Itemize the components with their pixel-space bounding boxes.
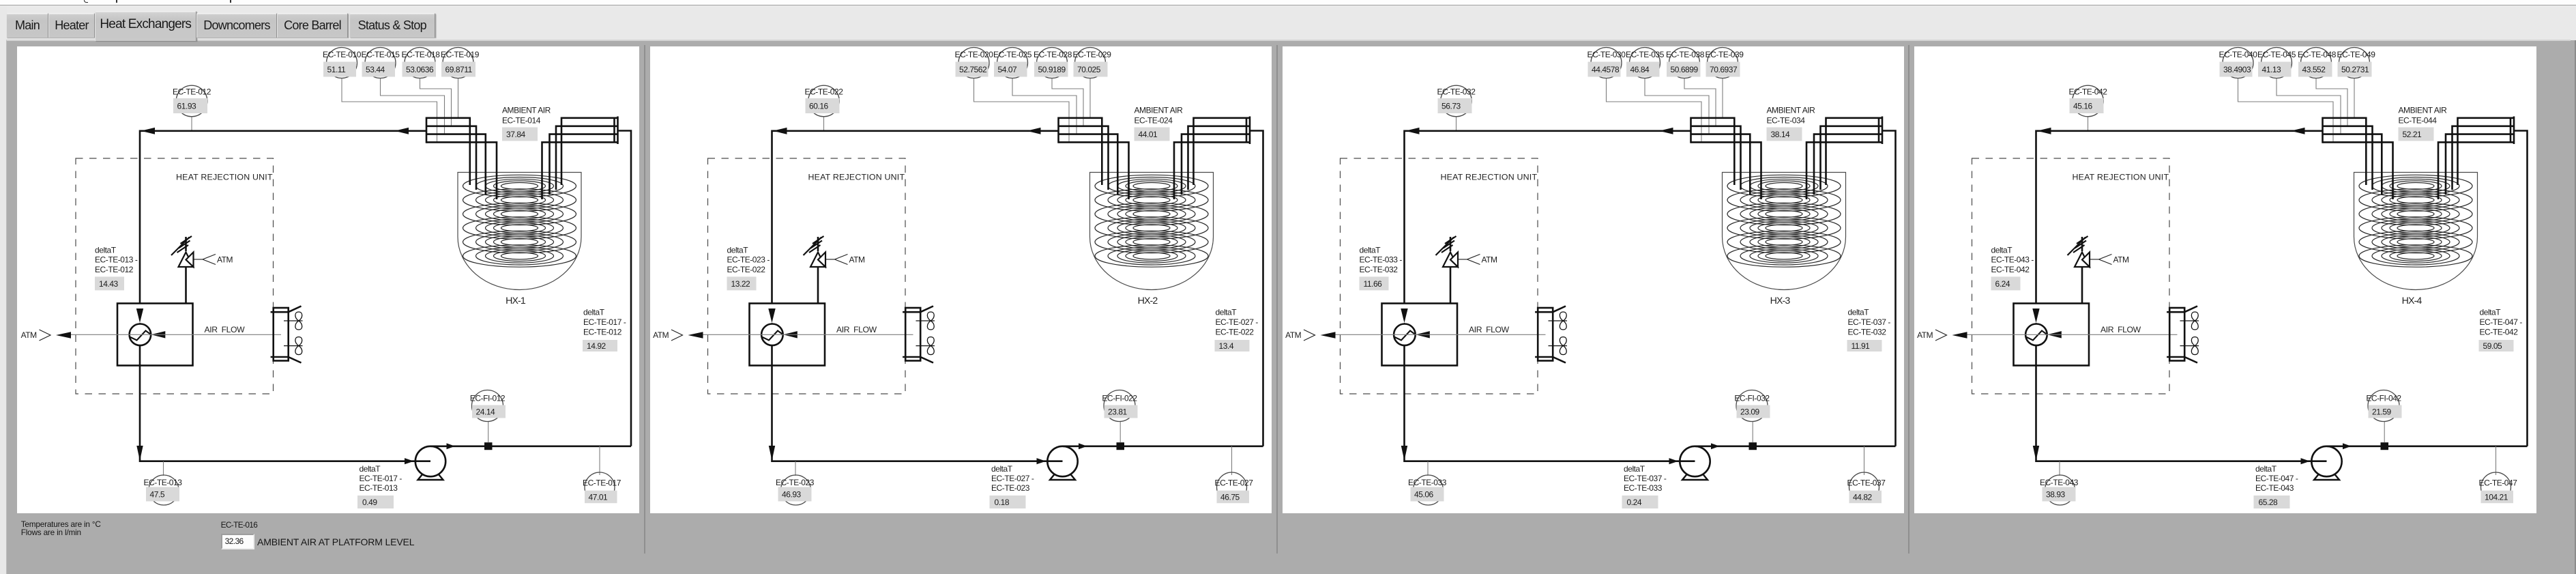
sensor EC-TE-030 (1587, 48, 1626, 78)
svg-text:41.13: 41.13 (2262, 65, 2282, 74)
flow indicator EC-FI-032 (1734, 390, 1770, 422)
svg-text:EC-TE-042: EC-TE-042 (2480, 327, 2519, 336)
svg-text:deltaT: deltaT (360, 464, 381, 474)
svg-text:11.91: 11.91 (1851, 341, 1870, 351)
flow indicator EC-FI-042 leader (2384, 422, 2385, 443)
svg-text:14.92: 14.92 (587, 341, 606, 351)
sensor EC-TE-016 (ambient at platform) (221, 520, 258, 530)
svg-text:11.66: 11.66 (1363, 279, 1382, 289)
svg-text:50.2731: 50.2731 (2341, 65, 2369, 74)
svg-text:EC-TE-029: EC-TE-029 (1072, 50, 1111, 59)
flow indicator EC-FI-022 (1102, 390, 1137, 422)
svg-text:AMBIENT AIR: AMBIENT AIR (502, 105, 551, 115)
exchanger circle with coil squiggle (2025, 324, 2047, 346)
sensor EC-TE-020 (954, 48, 993, 78)
HX-3 coil turns (1727, 175, 1841, 267)
sensor EC-TE-038 (1666, 48, 1705, 78)
svg-text:EC-TE-030: EC-TE-030 (1587, 50, 1626, 59)
window left light margin (0, 6, 7, 574)
svg-text:70.025: 70.025 (1077, 65, 1101, 74)
wire: air flow line (71, 334, 281, 335)
heat rejection unit box (air heat exchanger) (2014, 304, 2090, 366)
node ATM (air discharge) (21, 330, 71, 341)
wire: top main pipe (1404, 131, 1690, 304)
wire leader EC-TE-039 to duct row1 (1722, 78, 1723, 118)
air duct (warm side) right (1248, 117, 1250, 145)
flow indicator EC-FI-032 leader (1752, 422, 1753, 443)
svg-text:EC-TE-032: EC-TE-032 (1359, 265, 1398, 274)
svg-text:46.84: 46.84 (1630, 65, 1650, 74)
air duct (cold side) left (1057, 117, 1059, 143)
svg-text:70.6937: 70.6937 (1710, 65, 1738, 74)
panel 2: heat exchanger HX-2 loop (650, 46, 1272, 513)
svg-text:EC-TE-032: EC-TE-032 (1437, 87, 1476, 96)
sensor EC-TE-029 (1072, 48, 1111, 78)
flow indicator EC-FI-012 (470, 390, 506, 422)
svg-text:46.93: 46.93 (782, 489, 802, 499)
svg-text:14.43: 14.43 (99, 279, 119, 289)
sensor EC-TE-045 (2257, 48, 2296, 78)
svg-text:60.16: 60.16 (809, 101, 829, 111)
svg-text:EC-TE-042: EC-TE-042 (2069, 87, 2108, 96)
svg-text:deltaT: deltaT (1359, 245, 1381, 255)
sensor EC-TE-042 (2069, 85, 2108, 117)
node ATM (air discharge) (1285, 330, 1335, 341)
svg-text:38.4903: 38.4903 (2223, 65, 2251, 74)
svg-text:38.93: 38.93 (2046, 489, 2066, 499)
air duct (warm side) right (1881, 117, 1883, 145)
wire: pump outlet (430, 445, 631, 447)
svg-text:0.49: 0.49 (362, 498, 377, 507)
svg-text:EC-TE-012: EC-TE-012 (583, 327, 622, 336)
wire leader EC-TE-027 (1231, 446, 1232, 475)
svg-text:EC-TE-033: EC-TE-033 (1408, 478, 1447, 487)
wire leader EC-TE-010 to duct row4 (342, 78, 437, 143)
svg-text:EC-TE-037: EC-TE-037 (1847, 478, 1886, 487)
sensor EC-TE-037 (1847, 472, 1886, 503)
svg-text:44.4578: 44.4578 (1592, 65, 1620, 74)
fan unit F1 (271, 306, 303, 363)
svg-text:EC-TE-047 -: EC-TE-047 - (2255, 474, 2298, 483)
deltaT indicator EC-TE-037-EC-TE-033 (1622, 464, 1666, 508)
tabs (6, 13, 48, 38)
sensor EC-TE-033 (1408, 475, 1447, 505)
air duct (cold side) left (1690, 117, 1692, 143)
svg-text:ATM: ATM (1481, 255, 1497, 264)
wire leader EC-TE-023 (795, 461, 796, 476)
deltaT indicator EC-TE-013-EC-TE-012 (95, 245, 138, 290)
sensor EC-TE-015 (362, 48, 400, 78)
svg-text:45.06: 45.06 (1414, 489, 1434, 499)
svg-text:EC-TE-017 -: EC-TE-017 - (360, 474, 402, 483)
svg-text:AMBIENT AIR: AMBIENT AIR (1766, 105, 1815, 115)
sensor EC-TE-010 (323, 48, 362, 78)
svg-text:EC-TE-017: EC-TE-017 (583, 478, 621, 487)
heat rejection unit box (air heat exchanger) (117, 304, 193, 366)
svg-text:deltaT: deltaT (1847, 307, 1869, 317)
wire: top main pipe (140, 131, 426, 304)
svg-text:61.93: 61.93 (177, 101, 197, 111)
heat rejection unit dashed boundary (1972, 158, 2170, 394)
svg-text:deltaT: deltaT (727, 245, 748, 255)
svg-text:EC-TE-020: EC-TE-020 (954, 50, 993, 59)
svg-text:ATM: ATM (653, 330, 669, 340)
svg-text:HX-3: HX-3 (1770, 296, 1790, 306)
svg-text:EC-TE-037 -: EC-TE-037 - (1847, 317, 1890, 327)
deltaT indicator EC-TE-033-EC-TE-032 (1359, 245, 1402, 290)
heat exchanger HX-3 shell (1722, 173, 1845, 290)
window right dark edge (2575, 40, 2576, 574)
sensor EC-TE-047 (2479, 472, 2518, 503)
wire leader EC-TE-045 to duct row3 (2277, 78, 2341, 134)
pump P1 (1680, 446, 1710, 480)
svg-text:EC-TE-019: EC-TE-019 (441, 50, 480, 59)
wire leader EC-TE-012 to top pipe (191, 117, 192, 131)
air duct (warm side) right (617, 117, 619, 145)
air duct (cold side) left (426, 117, 428, 143)
sensor EC-TE-028 (1034, 48, 1072, 78)
svg-text:21.59: 21.59 (2372, 407, 2392, 416)
svg-text:EC-TE-022: EC-TE-022 (1215, 327, 1254, 336)
wire leader EC-TE-017 (599, 446, 600, 475)
exchanger circle with coil squiggle (761, 324, 783, 346)
heat rejection unit dashed boundary (76, 158, 274, 394)
svg-text:EC-TE-018: EC-TE-018 (402, 50, 441, 59)
svg-text:EC-TE-027 -: EC-TE-027 - (1215, 317, 1258, 327)
panel 1: heat exchanger HX-1 loop (17, 46, 639, 513)
svg-text:EC-TE-043: EC-TE-043 (2255, 483, 2294, 493)
orifice/valve (flow element) (2381, 442, 2389, 450)
svg-text:44.82: 44.82 (1853, 492, 1873, 502)
panel separator (644, 45, 645, 554)
svg-text:52.21: 52.21 (2403, 130, 2423, 139)
svg-text:EC-TE-047: EC-TE-047 (2479, 478, 2518, 487)
sensor EC-TE-048 (2298, 48, 2337, 78)
svg-text:52.7562: 52.7562 (959, 65, 987, 74)
svg-text:deltaT: deltaT (2480, 307, 2502, 317)
deltaT indicator EC-TE-047-EC-TE-043 (2254, 464, 2298, 508)
sensor EC-TE-022 (804, 85, 843, 117)
wire: bottom return pipe (140, 345, 430, 461)
sensor EC-TE-049 (2337, 48, 2376, 78)
svg-text:53.0636: 53.0636 (406, 65, 434, 74)
svg-text:deltaT: deltaT (1624, 464, 1645, 474)
svg-text:EC-TE-023 -: EC-TE-023 - (727, 255, 770, 265)
sensor EC-TE-039 (1705, 48, 1744, 78)
svg-text:EC-TE-033 -: EC-TE-033 - (1359, 255, 1402, 265)
wire leader EC-TE-019 to duct row1 (458, 78, 459, 118)
svg-text:EC-FI-012: EC-FI-012 (470, 393, 506, 403)
sensor EC-TE-012 (173, 85, 211, 117)
svg-text:EC-FI-042: EC-FI-042 (2366, 393, 2401, 403)
sensor EC-TE-025 (993, 48, 1032, 78)
wire leader EC-TE-025 to duct row3 (1012, 78, 1077, 134)
orifice/valve (flow element) (1748, 442, 1757, 450)
heat rejection unit dashed boundary (1340, 158, 1538, 394)
svg-text:EC-TE-033: EC-TE-033 (1624, 483, 1663, 493)
svg-text:37.84: 37.84 (506, 130, 526, 139)
deltaT indicator EC-TE-023-EC-TE-022 (727, 245, 770, 290)
relief valve V1 (to atmosphere) (171, 236, 194, 304)
sensor EC-TE-018 (402, 48, 441, 78)
wire leader EC-TE-042 to top pipe (2088, 117, 2089, 131)
wire leader EC-TE-049 to duct row1 (2354, 78, 2355, 118)
sensor EC-TE-019 (441, 48, 480, 78)
svg-text:HX-1: HX-1 (506, 296, 526, 306)
wire: pump outlet (2327, 445, 2528, 447)
svg-text:ATM: ATM (1285, 330, 1302, 340)
svg-text:ATM: ATM (2113, 255, 2130, 264)
node ATM (valve vent) (194, 255, 233, 265)
relief valve V1 (to atmosphere) (2068, 236, 2090, 304)
svg-text:46.75: 46.75 (1220, 492, 1240, 502)
panel separator (1276, 45, 1278, 554)
orifice/valve (flow element) (1116, 442, 1124, 450)
node ATM (valve vent) (1459, 255, 1497, 265)
heat exchanger HX-2 shell (1089, 173, 1213, 290)
flow indicator EC-FI-012 leader (488, 422, 489, 443)
deltaT indicator EC-TE-037-EC-TE-032 (1847, 307, 1890, 351)
wire leader EC-TE-028 to duct row2 (1052, 78, 1083, 126)
sensor EC-TE-035 (1626, 48, 1665, 78)
svg-text:deltaT: deltaT (1991, 245, 2013, 255)
pump P1 (1047, 446, 1077, 480)
deltaT indicator EC-TE-027-EC-TE-023 (989, 464, 1034, 508)
wire: top main pipe (2036, 131, 2323, 304)
wire leader EC-TE-043 (2059, 461, 2060, 476)
svg-text:EC-TE-038: EC-TE-038 (1666, 50, 1705, 59)
deltaT indicator EC-TE-047-EC-TE-042 (2479, 307, 2523, 351)
flow indicator EC-FI-022 leader (1119, 422, 1121, 443)
wire: air flow line (1335, 334, 1545, 335)
svg-text:HX-2: HX-2 (1137, 296, 1158, 306)
fan unit F1 (2167, 306, 2199, 363)
deltaT indicator EC-TE-027-EC-TE-022 (1214, 307, 1258, 351)
panel 4: heat exchanger HX-4 loop (1914, 46, 2536, 513)
air duct (cold side) left (2322, 117, 2324, 143)
svg-text:AIR FLOW: AIR FLOW (836, 325, 877, 334)
footer notes (21, 519, 101, 529)
wire leader EC-TE-020 to duct row4 (974, 78, 1069, 143)
wire leader EC-TE-040 to duct row4 (2238, 78, 2334, 143)
wire leader EC-TE-035 to duct row3 (1645, 78, 1709, 134)
svg-text:EC-TE-043: EC-TE-043 (2040, 478, 2079, 487)
svg-text:EC-TE-028: EC-TE-028 (1034, 50, 1072, 59)
svg-text:EC-TE-012: EC-TE-012 (95, 265, 134, 274)
svg-text:EC-TE-013: EC-TE-013 (360, 483, 398, 493)
svg-text:EC-FI-022: EC-FI-022 (1102, 393, 1137, 403)
svg-text:EC-TE-013: EC-TE-013 (144, 478, 183, 487)
wire leader EC-TE-038 to duct row2 (1684, 78, 1716, 126)
svg-text:50.6899: 50.6899 (1670, 65, 1698, 74)
panel separator (1908, 45, 1909, 554)
top white strip with cut-off text descenders (0, 0, 2576, 5)
heat rejection unit box (air heat exchanger) (1381, 304, 1457, 366)
svg-text:69.8711: 69.8711 (445, 65, 473, 74)
wire leader EC-TE-037 (1863, 446, 1864, 475)
node ATM (valve vent) (2090, 255, 2129, 265)
sensor EC-TE-043 (2040, 475, 2079, 505)
HX-1 coil turns (463, 175, 576, 267)
relief valve V1 (to atmosphere) (803, 236, 825, 304)
svg-text:43.552: 43.552 (2302, 65, 2326, 74)
pump P1 (2311, 446, 2341, 480)
svg-text:ATM: ATM (217, 255, 233, 264)
sensor EC-TE-040 (2219, 48, 2258, 78)
wire: bottom return pipe (1404, 345, 1694, 461)
svg-text:HEAT REJECTION UNIT: HEAT REJECTION UNIT (1440, 172, 1537, 182)
svg-text:44.01: 44.01 (1138, 130, 1158, 139)
exchanger circle with coil squiggle (1394, 324, 1416, 346)
node ATM (valve vent) (826, 255, 865, 265)
svg-text:EC-TE-032: EC-TE-032 (1847, 327, 1886, 336)
wire leader EC-TE-030 to duct row4 (1606, 78, 1701, 143)
wire: right riser pipe (1250, 131, 1263, 446)
svg-text:EC-TE-024: EC-TE-024 (1134, 116, 1173, 126)
sensor EC-TE-032 (1437, 85, 1476, 117)
svg-text:EC-TE-044: EC-TE-044 (2399, 116, 2438, 126)
svg-text:0.24: 0.24 (1626, 498, 1641, 507)
svg-text:AMBIENT AIR: AMBIENT AIR (1134, 105, 1183, 115)
svg-text:AIR FLOW: AIR FLOW (205, 325, 246, 334)
svg-text:38.14: 38.14 (1770, 130, 1790, 139)
wire leader EC-TE-013 (163, 461, 164, 476)
wire leader EC-TE-033 (1427, 461, 1429, 476)
svg-text:0.18: 0.18 (994, 498, 1009, 507)
flow indicator EC-FI-042 (2366, 390, 2401, 422)
orifice/valve (flow element) (484, 442, 493, 450)
svg-text:deltaT: deltaT (583, 307, 605, 317)
svg-text:EC-TE-025: EC-TE-025 (993, 50, 1032, 59)
heat exchanger HX-4 shell (2354, 173, 2478, 290)
wire: top main pipe (772, 131, 1058, 304)
svg-text:EC-TE-023: EC-TE-023 (991, 483, 1030, 493)
svg-text:23.09: 23.09 (1740, 407, 1760, 416)
svg-text:EC-TE-047 -: EC-TE-047 - (2480, 317, 2523, 327)
svg-text:deltaT: deltaT (95, 245, 117, 255)
svg-text:AMBIENT AIR: AMBIENT AIR (2399, 105, 2448, 115)
svg-text:deltaT: deltaT (991, 464, 1013, 474)
svg-text:EC-TE-043 -: EC-TE-043 - (1991, 255, 2034, 265)
relief valve V1 (to atmosphere) (1435, 236, 1458, 304)
svg-text:EC-TE-017 -: EC-TE-017 - (583, 317, 626, 327)
wire leader EC-TE-032 to top pipe (1455, 117, 1457, 131)
svg-text:deltaT: deltaT (2255, 464, 2277, 474)
wire: bottom return pipe (2036, 345, 2326, 461)
svg-text:EC-TE-013 -: EC-TE-013 - (95, 255, 138, 265)
deltaT indicator EC-TE-017-EC-TE-012 (583, 307, 626, 351)
svg-text:45.16: 45.16 (2073, 101, 2093, 111)
fan unit F1 (1535, 306, 1567, 363)
sensor EC-TE-023 (776, 475, 815, 505)
HX-2 coil turns (1095, 175, 1208, 267)
HX-4 coil turns (2359, 175, 2472, 267)
svg-text:AIR FLOW: AIR FLOW (2101, 325, 2141, 334)
svg-text:EC-TE-027: EC-TE-027 (1214, 478, 1253, 487)
svg-text:54.07: 54.07 (997, 65, 1017, 74)
svg-text:EC-FI-032: EC-FI-032 (1734, 393, 1770, 403)
svg-text:23.81: 23.81 (1108, 407, 1128, 416)
wire: air flow line (703, 334, 913, 335)
wire: right riser pipe (618, 131, 632, 446)
air duct (warm side) right (2513, 117, 2515, 145)
node ATM (air discharge) (653, 330, 703, 341)
svg-text:EC-TE-039: EC-TE-039 (1705, 50, 1744, 59)
wire leader EC-TE-048 to duct row2 (2316, 78, 2347, 126)
svg-text:deltaT: deltaT (1215, 307, 1237, 317)
svg-text:13.4: 13.4 (1218, 341, 1233, 351)
svg-text:EC-TE-014: EC-TE-014 (502, 116, 541, 126)
svg-text:EC-TE-012: EC-TE-012 (173, 87, 211, 96)
svg-text:47.5: 47.5 (150, 489, 165, 499)
wire leader EC-TE-047 (2495, 446, 2497, 475)
svg-text:ATM: ATM (849, 255, 865, 264)
svg-text:EC-TE-042: EC-TE-042 (1991, 265, 2030, 274)
svg-text:104.21: 104.21 (2485, 492, 2508, 502)
svg-text:EC-TE-049: EC-TE-049 (2337, 50, 2376, 59)
sensor EC-TE-027 (1214, 472, 1253, 503)
svg-text:13.22: 13.22 (731, 279, 750, 289)
svg-text:EC-TE-023: EC-TE-023 (776, 478, 815, 487)
wire: air flow line (1967, 334, 2178, 335)
svg-text:EC-TE-022: EC-TE-022 (727, 265, 765, 274)
svg-text:50.9189: 50.9189 (1038, 65, 1066, 74)
svg-text:24.14: 24.14 (476, 407, 496, 416)
svg-text:EC-TE-034: EC-TE-034 (1766, 116, 1805, 126)
svg-text:53.44: 53.44 (366, 65, 385, 74)
wire: right riser pipe (1882, 131, 1896, 446)
svg-text:HEAT REJECTION UNIT: HEAT REJECTION UNIT (2073, 172, 2169, 182)
wire leader EC-TE-029 to duct row1 (1089, 78, 1091, 118)
heat rejection unit dashed boundary (707, 158, 905, 394)
sensor EC-TE-017 (583, 472, 621, 503)
heat exchanger HX-1 shell (458, 173, 581, 290)
svg-text:56.73: 56.73 (1441, 101, 1461, 111)
svg-text:EC-TE-022: EC-TE-022 (804, 87, 843, 96)
panel 3: heat exchanger HX-3 loop (1283, 46, 1905, 513)
svg-text:AIR FLOW: AIR FLOW (1469, 325, 1510, 334)
wire leader EC-TE-022 to top pipe (823, 117, 824, 131)
svg-text:EC-TE-015: EC-TE-015 (362, 50, 400, 59)
svg-text:EC-TE-035: EC-TE-035 (1626, 50, 1665, 59)
wire: right riser pipe (2514, 131, 2528, 446)
svg-text:ATM: ATM (21, 330, 38, 340)
svg-text:51.11: 51.11 (327, 65, 347, 74)
svg-text:EC-TE-037 -: EC-TE-037 - (1624, 474, 1667, 483)
deltaT indicator EC-TE-043-EC-TE-042 (1991, 245, 2034, 290)
svg-text:EC-TE-040: EC-TE-040 (2219, 50, 2258, 59)
svg-text:59.05: 59.05 (2483, 341, 2503, 351)
wire leader EC-TE-015 to duct row3 (381, 78, 445, 134)
svg-text:HEAT REJECTION UNIT: HEAT REJECTION UNIT (808, 172, 905, 182)
wire: bottom return pipe (772, 345, 1062, 461)
heat rejection unit box (air heat exchanger) (749, 304, 825, 366)
svg-text:EC-TE-010: EC-TE-010 (323, 50, 362, 59)
node ATM (air discharge) (1917, 330, 1967, 341)
fan unit F1 (903, 306, 935, 363)
svg-text:65.28: 65.28 (2259, 498, 2279, 507)
svg-text:6.24: 6.24 (1995, 279, 2010, 289)
wire leader EC-TE-018 to duct row2 (420, 78, 452, 126)
svg-text:EC-TE-045: EC-TE-045 (2257, 50, 2296, 59)
exchanger circle with coil squiggle (130, 324, 151, 346)
wire: pump outlet (1695, 445, 1895, 447)
wire: pump outlet (1062, 445, 1263, 447)
svg-text:HX-4: HX-4 (2402, 296, 2423, 306)
pump P1 (415, 446, 445, 480)
tab strip background band (0, 5, 2576, 40)
svg-text:EC-TE-027 -: EC-TE-027 - (991, 474, 1034, 483)
